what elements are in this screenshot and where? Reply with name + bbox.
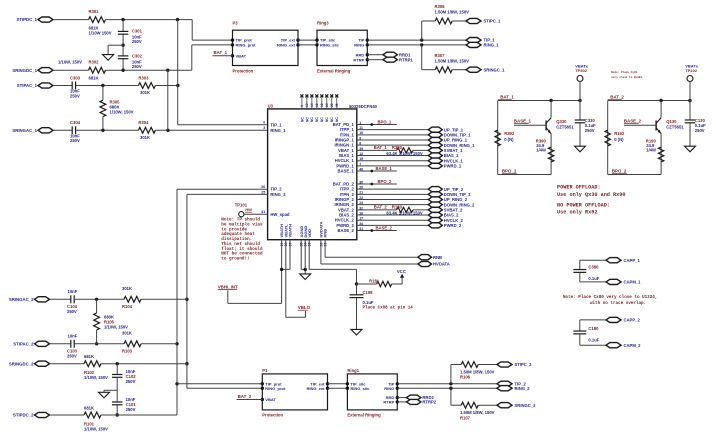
svg-text:Note: Place Cx30: Note: Place Cx30 — [611, 70, 637, 74]
svg-text:Protection: Protection — [233, 68, 254, 73]
label U3 — [268, 103, 274, 108]
pin U3 BIAS_1 pin 12 — [339, 152, 363, 158]
node STIPDC_1 input connector — [16, 17, 53, 22]
svg-text:STIPC_1: STIPC_1 — [484, 19, 502, 24]
svg-text:C330: C330 — [585, 118, 596, 123]
junction DGND join — [304, 268, 307, 271]
node RTRP2 connector — [407, 399, 437, 404]
svg-text:0 (N): 0 (N) — [614, 137, 624, 142]
node BPO_2 net label — [378, 179, 392, 184]
svg-text:NC: NC — [300, 117, 304, 122]
pin U3 VBAT_2 pin 32 — [338, 206, 363, 212]
label R106 refdes — [460, 375, 471, 380]
wire IRINGP_1 to UP_RING_1 — [357, 139, 429, 141]
wire C380 to CAPM_1 — [580, 272, 606, 282]
svg-text:U3: U3 — [268, 103, 274, 108]
svg-text:RING_slic: RING_slic — [320, 43, 340, 48]
svg-text:301K: 301K — [140, 90, 150, 95]
junction Q330 collector tap — [549, 99, 552, 102]
svg-text:681K: 681K — [84, 406, 94, 411]
node DOWN_TIP_1 connector — [428, 132, 471, 137]
wire Ring3 RING to RING_1 connector — [367, 44, 466, 46]
capacitor C130 — [685, 120, 696, 146]
svg-text:SRINGAC_1: SRINGAC_1 — [12, 128, 37, 133]
capacitor C101 — [112, 390, 123, 415]
node HVCLK_2 connector — [428, 218, 463, 223]
label C130 — [695, 118, 706, 133]
svg-text:0.1uF: 0.1uF — [588, 276, 599, 281]
pin U3 RING_2 pin 25 — [261, 191, 286, 198]
label Q130 — [666, 119, 684, 129]
svg-text:NC: NC — [325, 117, 329, 122]
junction C302 bottom — [121, 69, 124, 72]
svg-text:24: 24 — [325, 103, 329, 107]
pin P1 TIP_ext — [310, 381, 329, 386]
label C103 — [67, 349, 78, 359]
label C103 value — [68, 334, 78, 339]
svg-text:STIPC_2: STIPC_2 — [515, 362, 533, 367]
resistor R192 (0 ohm) — [605, 130, 610, 146]
wire Ring1 RRD to RRD2 — [397, 397, 406, 399]
node VBHI_INT net label — [218, 285, 238, 290]
label R180 refdes — [392, 204, 403, 209]
pin Ring3 TIP_slic — [315, 38, 336, 43]
resistor R107 — [461, 402, 478, 408]
svg-text:STIPDC_2: STIPDC_2 — [13, 413, 34, 418]
junction VBATH join — [280, 268, 283, 271]
wire SRINGAC_2 to C104 — [51, 298, 71, 300]
svg-text:TIP_2: TIP_2 — [270, 187, 282, 192]
label R107 value — [460, 410, 495, 415]
wire R302 to RING corner — [106, 69, 192, 71]
svg-text:BASE_2: BASE_2 — [338, 228, 355, 233]
pin Ring3 RING_slic — [315, 43, 339, 48]
svg-text:RING_ext: RING_ext — [277, 43, 296, 48]
wire STIPAC_1 to C303 — [54, 85, 72, 87]
svg-text:RTRP2: RTRP2 — [422, 400, 436, 405]
node RING_2 connector — [497, 386, 530, 391]
svg-text:C180: C180 — [588, 326, 599, 331]
label C108 placement note — [363, 305, 414, 310]
wire R106 branch — [451, 365, 461, 384]
label C302 — [132, 53, 143, 69]
svg-text:1/4W: 1/4W — [536, 148, 546, 153]
label R105 — [104, 315, 128, 330]
svg-text:Protection: Protection — [262, 412, 283, 417]
resistor R304 — [138, 127, 155, 133]
wire net BASE_2 stub — [357, 229, 397, 232]
svg-text:1/10W, 150V: 1/10W, 150V — [110, 109, 134, 114]
pin U3 TIP_2 pin 26 — [261, 185, 282, 192]
svg-text:External Ringing: External Ringing — [317, 68, 351, 73]
pin U3 BAT_PD_2 pin 30 — [333, 180, 364, 186]
resistor R180 series — [397, 207, 413, 212]
svg-text:10nF: 10nF — [68, 334, 78, 339]
junction STIPAC/TIP vertical — [176, 84, 179, 87]
wire node to R181 — [357, 283, 377, 285]
wire STIPAC_2 to C103 — [51, 343, 71, 345]
pin U3 IRINGN_2 pin 23 — [334, 201, 363, 207]
wire C302 vertical — [122, 45, 124, 70]
svg-text:250V: 250V — [67, 309, 77, 314]
svg-text:RING_2: RING_2 — [270, 192, 286, 197]
wire R307 branch — [422, 45, 436, 70]
wire R303 to TIP vertical — [155, 85, 178, 87]
junction SRINGAC_2 on RING_2 bus — [185, 298, 188, 301]
svg-text:1.50M 1/8W, 150V: 1.50M 1/8W, 150V — [435, 10, 470, 15]
wire P1 to Ring1 RING — [328, 387, 348, 389]
node CAPM_1 connector — [606, 279, 641, 284]
wire HVCLK_1 to HVCLK_1 — [357, 160, 429, 162]
pin U3 ITPN_1 pin 10 — [340, 131, 364, 137]
wire BIAS_1 to BIAS_1 — [357, 155, 429, 157]
wire IRINGN_2 to DOWN_RING_2 — [357, 204, 429, 206]
node HVDATA connector — [418, 261, 450, 266]
svg-text:CAPP_2: CAPP_2 — [624, 318, 641, 323]
label R104 value — [122, 286, 132, 291]
label R305 — [110, 99, 134, 114]
junction R305 top — [101, 84, 104, 87]
label Ring3 — [317, 20, 329, 25]
label C101 — [126, 397, 137, 412]
svg-text:P1: P1 — [262, 368, 268, 373]
node RING_1 connector — [466, 42, 499, 47]
wire R306 to STIPC_1 — [452, 20, 466, 22]
block P3 Protection — [233, 30, 299, 65]
note place Cx30 — [611, 70, 643, 79]
wire left vertical to BPO_1 — [497, 101, 499, 175]
node RTRP1 connector — [383, 57, 413, 62]
label C108 value — [363, 300, 374, 305]
svg-text:STIPAC_1: STIPAC_1 — [17, 83, 38, 88]
node BAT_2 net label — [374, 204, 388, 209]
svg-text:RING_2: RING_2 — [515, 386, 531, 391]
test point TP102 — [687, 76, 693, 82]
capacitor C302 — [118, 56, 129, 59]
pin U3 PWRD_2 pin 34 — [336, 222, 363, 228]
svg-text:R307: R307 — [435, 53, 446, 58]
no-connect X pins on U3 top — [300, 94, 338, 109]
wire Ring1 RING to RING_2 connector — [397, 387, 497, 389]
svg-text:R192: R192 — [614, 131, 625, 136]
node STIPAC_2 input connector — [13, 341, 49, 346]
block P1 Protection — [262, 374, 327, 410]
node SVBAT_1 connector — [428, 148, 463, 153]
svg-text:Place Cx08 at pin 14: Place Cx08 at pin 14 — [363, 305, 414, 310]
node SRINGDC_2 input connector — [9, 361, 50, 366]
label R180 value — [386, 210, 423, 215]
svg-text:R107: R107 — [460, 415, 471, 420]
svg-text:250V: 250V — [132, 39, 142, 44]
svg-text:RING: RING — [384, 386, 394, 391]
svg-text:R392: R392 — [504, 131, 515, 136]
svg-text:BPO_1: BPO_1 — [502, 169, 517, 174]
pin U3 ITPP_2 pin 20 — [340, 186, 363, 192]
wire TIP corner down to P3 — [192, 20, 232, 40]
junction C301 top — [121, 18, 124, 21]
pin U3 VBAT_1 pin 39 — [338, 147, 363, 153]
pin Ring3 TIP — [358, 38, 369, 43]
svg-text:VBATH: VBATH — [288, 224, 293, 238]
svg-text:RING_slic: RING_slic — [350, 386, 370, 391]
pin U3 HVCLK_2 pin 17 — [335, 217, 363, 223]
pin U3 HVCLK_1 pin 15 — [335, 157, 363, 163]
wire VBAT_2 to R382 — [357, 209, 397, 211]
test point TP101 — [235, 203, 248, 217]
pin U3 BIAS_2 pin 16 — [339, 211, 363, 217]
pin P3 TIP_prot — [231, 38, 253, 43]
pin U3 VBATH (bottom, pin 37) — [288, 224, 293, 247]
svg-text:R181: R181 — [369, 279, 380, 284]
wire STIPDC_2 to R101 — [51, 414, 85, 416]
wire R301 to TIP corner — [106, 19, 193, 21]
wire BAT_2 to P1 VBAT — [237, 399, 263, 401]
svg-text:RNB: RNB — [323, 229, 328, 238]
junction C101 bottom — [116, 413, 119, 416]
pin Ring1 RING — [384, 386, 399, 391]
svg-text:Use only Qx30 and Rx90: Use only Qx30 and Rx90 — [557, 192, 626, 198]
pin U3 RNB (bottom, pin 13) — [323, 229, 328, 247]
pin U3 BASE_1 pin 40 — [338, 167, 364, 173]
label R302 rating — [58, 59, 82, 64]
label Ring3 External Ringing — [317, 68, 351, 73]
node CAPP_1 connector — [606, 258, 640, 263]
svg-text:CZT5651: CZT5651 — [666, 125, 684, 130]
pin Ring1 TIP_slic — [346, 381, 367, 386]
node PWRD_2 connector — [428, 223, 462, 228]
capacitor C330 — [575, 120, 586, 146]
svg-text:1.50M 1/8W, 150V: 1.50M 1/8W, 150V — [435, 58, 470, 63]
wire TIP_2 bus to P1 — [177, 383, 262, 385]
label R302 refdes — [89, 59, 100, 64]
wire BIAS_2 to BIAS_2 — [357, 214, 429, 216]
wire C103 to R103 — [74, 343, 124, 345]
pin P3 RING_ext — [277, 43, 300, 48]
label R107 refdes — [460, 415, 471, 420]
node BAT_2 net label — [608, 95, 625, 100]
svg-text:1/10W, 150V: 1/10W, 150V — [104, 325, 128, 330]
wire TP101 to U3 HW_spad — [244, 213, 268, 215]
node BASE_2 net label — [376, 226, 393, 231]
svg-text:26: 26 — [261, 185, 265, 189]
svg-text:SRINGC_1: SRINGC_1 — [484, 67, 506, 72]
svg-text:1/4W: 1/4W — [646, 148, 656, 153]
resistor R190 — [658, 147, 663, 162]
svg-text:1/10W 150V: 1/10W 150V — [89, 30, 112, 35]
svg-text:41: 41 — [261, 210, 265, 214]
node BAT_2 net label at P1 — [238, 394, 252, 399]
label R303 refdes — [138, 75, 149, 80]
wire RING_2 vertical bus — [187, 194, 268, 388]
node TIP_1 connector — [466, 38, 495, 43]
node TIP_2 connector — [497, 381, 526, 386]
svg-text:250V: 250V — [70, 93, 80, 98]
wire R to SVBAT_1 connector — [413, 149, 428, 151]
ground under C108 — [351, 329, 362, 335]
svg-text:SRINGDC_1: SRINGDC_1 — [12, 68, 37, 73]
capacitor C102 — [112, 364, 123, 391]
wire to ground — [108, 45, 123, 54]
svg-text:PWRD_1: PWRD_1 — [444, 163, 462, 168]
svg-text:Ring3: Ring3 — [317, 20, 329, 25]
svg-text:681K: 681K — [89, 76, 99, 81]
svg-text:SRINGAC_2: SRINGAC_2 — [9, 297, 34, 302]
op-amp U3 dual SLIC IC body — [268, 109, 357, 240]
junction Q130 collector tap — [659, 99, 662, 102]
svg-text:0.1uF: 0.1uF — [588, 338, 599, 343]
note place Cx80 — [563, 295, 657, 306]
wire R107 branch — [451, 388, 461, 405]
label R303 value — [140, 90, 150, 95]
node SRINGDC_1 input connector — [12, 68, 53, 73]
node BPO_1 net label — [502, 169, 517, 174]
svg-text:301K: 301K — [140, 135, 150, 140]
label C180 — [588, 326, 599, 343]
node SVBAT_2 connector — [428, 207, 463, 212]
label R301 refdes — [89, 9, 100, 14]
svg-text:C108: C108 — [363, 290, 374, 295]
wire R306 branch — [422, 21, 436, 40]
capacitor C108 — [350, 284, 364, 329]
pin U3 ITPN_2 pin 21 — [340, 191, 364, 197]
node UP_RING_2 connector — [428, 197, 467, 202]
pin P3 TIP_ext — [281, 38, 300, 43]
resistor R101 — [84, 412, 101, 418]
wire SRINGDC_1 to R302 — [54, 69, 89, 71]
svg-text:C380: C380 — [588, 264, 599, 269]
wire P1 to Ring1 TIP — [328, 383, 348, 385]
label R307 refdes — [435, 53, 446, 58]
wire Ring1 RTRP to RTRP2 — [397, 401, 406, 403]
node HW net label — [245, 207, 252, 212]
wire net BPO_1 stub — [357, 123, 397, 126]
label C104 — [67, 304, 78, 314]
node BPO_2 net label — [612, 169, 627, 174]
wire P3 to Ring3 RING — [298, 44, 317, 46]
svg-text:250V: 250V — [70, 138, 80, 143]
svg-text:6: 6 — [263, 121, 265, 125]
resistor R306 — [435, 18, 452, 24]
node SRINGAC_2 input connector — [9, 297, 50, 302]
wire RNB pin run — [325, 240, 418, 258]
wire VBATH pins join — [282, 240, 290, 304]
label R306 refdes — [435, 4, 446, 9]
label R306 value — [435, 10, 470, 15]
junction R305 bottom — [101, 129, 104, 132]
node PWRD_1 connector — [428, 163, 462, 168]
wire ITPP_1 to UP_TIP_1 — [357, 129, 429, 131]
resistor R106 — [461, 362, 478, 368]
svg-text:R302: R302 — [89, 59, 100, 64]
wire Ring3 RRD to RRD1 — [367, 54, 383, 56]
svg-text:VCC: VCC — [397, 269, 406, 274]
node STIPC_1 connector — [466, 18, 501, 23]
svg-text:with no trace overlap.: with no trace overlap. — [590, 301, 646, 306]
wire Ring1 TIP to TIP_2 connector — [397, 383, 497, 385]
svg-text:250V: 250V — [132, 64, 142, 69]
pin P1 RING_ext — [306, 386, 329, 391]
svg-text:NC: NC — [315, 117, 319, 122]
svg-text:HW_spad: HW_spad — [270, 212, 290, 217]
node DOWN_RING_1 connector — [428, 143, 475, 148]
wire HVCLK_2 to HVCLK_2 — [357, 219, 429, 221]
wire VBATL to VBLO — [286, 240, 306, 318]
wire R106 to STIPC_2 — [478, 364, 497, 366]
svg-text:CAPP_1: CAPP_1 — [624, 258, 641, 263]
svg-text:R180: R180 — [392, 204, 403, 209]
node BAT_1 net label — [498, 95, 515, 100]
pin U3 AGND (bottom, pin 35) — [299, 226, 304, 247]
wire Ring3 RTRP to RTRP1 — [367, 59, 383, 61]
wire R307 to SRINGC_1 — [452, 69, 466, 71]
wire VBAT_1 to R381 — [357, 149, 397, 151]
node BIAS_1 connector — [428, 153, 459, 158]
wire R103 to TIP_2 bus — [141, 343, 177, 345]
svg-text:RING: RING — [354, 43, 364, 48]
svg-text:BAT_2: BAT_2 — [610, 95, 624, 100]
svg-text:R104: R104 — [122, 304, 133, 309]
wire CAPP_2 to C180 — [580, 320, 606, 331]
label P3 Protection — [233, 68, 254, 73]
svg-text:1/10W, 150V: 1/10W, 150V — [84, 426, 108, 431]
pin U3 PWRD_1 pin 7 — [336, 162, 361, 168]
svg-text:0 (N): 0 (N) — [504, 137, 514, 142]
label R304 value — [140, 135, 150, 140]
wire TP102 to rail and C130 — [689, 82, 691, 120]
pin P1 TIP_prot — [261, 381, 283, 386]
junction C301/C302 node — [121, 44, 124, 47]
pin U3 IRINGP_2 pin 22 — [335, 196, 363, 202]
label P1 — [262, 368, 268, 373]
wire RING_1 vertical bus — [167, 70, 169, 130]
wire ITPN_1 to DOWN_TIP_1 — [357, 134, 429, 136]
svg-text:NC: NC — [320, 117, 324, 122]
node BAT_1 net label — [374, 145, 388, 150]
junction TIP vertical top — [176, 18, 179, 21]
node BASE_1 net label — [514, 118, 532, 123]
svg-text:VBHI_INT: VBHI_INT — [218, 285, 238, 290]
junction R105 bottom — [95, 342, 98, 345]
pin U3 IRINGN_1 pin 8 — [334, 142, 361, 148]
wire R107 to SRINGC_2 — [478, 404, 497, 406]
svg-text:STIPDC_1: STIPDC_1 — [16, 17, 37, 22]
svg-text:R103: R103 — [122, 349, 133, 354]
node BAT_1 net label at P3 — [214, 50, 228, 55]
block Ring1 External Ringing — [347, 374, 397, 410]
resistor R307 — [435, 67, 452, 73]
resistor R305 vertical — [100, 86, 106, 131]
pin P3 RING_prot — [231, 43, 256, 48]
svg-text:C303: C303 — [70, 75, 81, 80]
svg-text:BPO_2: BPO_2 — [378, 179, 392, 184]
svg-text:VDD: VDD — [307, 229, 312, 238]
node UP_TIP_1 connector — [428, 127, 463, 132]
label R190 — [646, 138, 657, 152]
wire STIPDC_1 to R301 — [54, 19, 89, 21]
junction TP/cap tap — [578, 99, 581, 102]
svg-text:Ring1: Ring1 — [347, 368, 359, 373]
note TP101 heat dissipation — [221, 218, 263, 262]
svg-text:VBLO: VBLO — [298, 305, 311, 310]
wire R101 to TIP_2 bus — [101, 414, 177, 416]
resistor R303 — [138, 83, 155, 89]
junction R306 tap — [420, 38, 423, 41]
wire TIP_1 vertical bus — [178, 20, 268, 125]
svg-text:R304: R304 — [138, 120, 149, 125]
node RRD1 connector — [383, 52, 411, 57]
svg-text:TP302: TP302 — [575, 68, 588, 73]
svg-text:BAT_1: BAT_1 — [374, 145, 388, 150]
